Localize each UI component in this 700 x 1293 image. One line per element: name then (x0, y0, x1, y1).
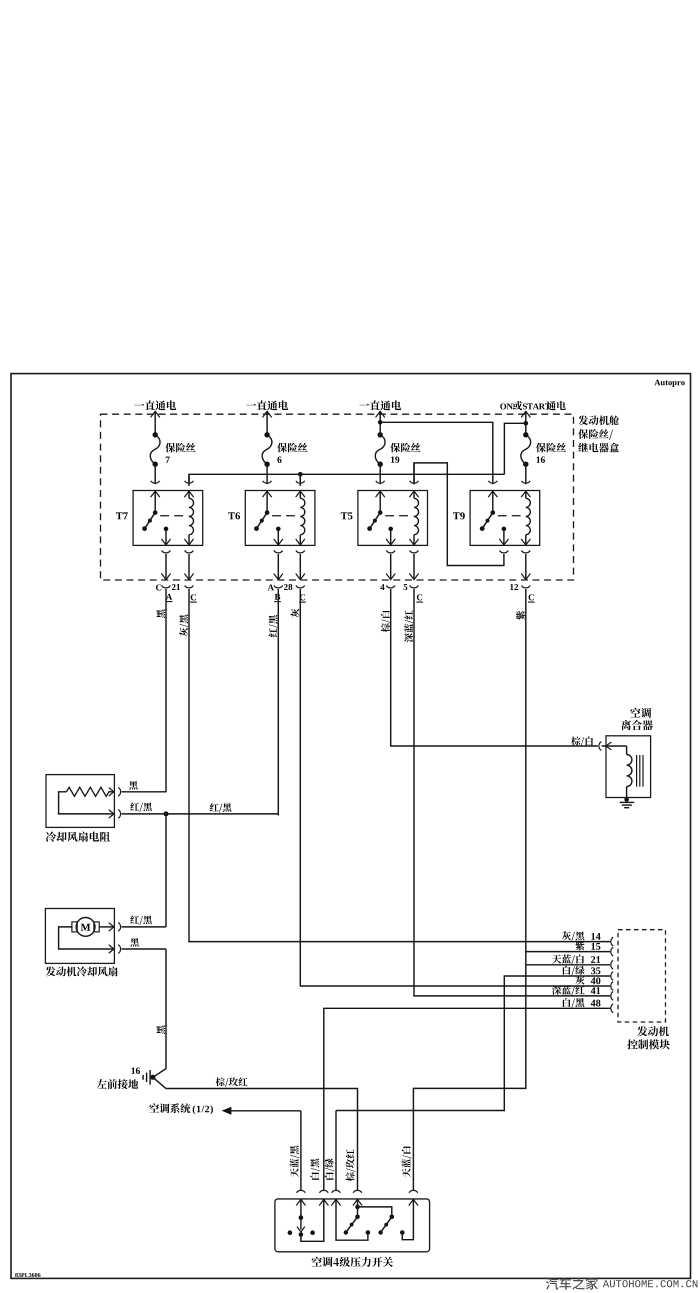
label-v 深蓝/红 (404, 610, 414, 642)
wire: ON/START junction to coil supply line (504, 423, 525, 474)
label 棕/白 (571, 736, 580, 745)
fuse 7 (154, 411, 156, 435)
label 12 (510, 584, 513, 590)
PS switch1 (300, 1199, 302, 1218)
label-v 黑 (156, 609, 165, 618)
wire + up arrow from feed (263, 411, 272, 417)
label-v 白/黑 (310, 1159, 320, 1180)
label 16 (132, 1068, 135, 1074)
label C (156, 584, 161, 590)
label C (300, 594, 305, 600)
label 保险丝 (277, 443, 287, 453)
label 4 (380, 584, 384, 590)
label T6 (228, 512, 235, 519)
wire: relay coil supply line T7/T6 (189, 474, 504, 486)
connector above T9 coil pin (521, 481, 530, 483)
arrow AC system (222, 1107, 232, 1115)
label-v 灰 (291, 609, 300, 618)
connector above T9 switch pin (488, 481, 497, 483)
label 一直通电 (246, 404, 256, 406)
label 保险丝 (390, 443, 400, 453)
label 白/绿 (563, 966, 571, 975)
label (1/2) (193, 1105, 196, 1114)
junction dot feed3 (379, 411, 381, 435)
clutch feed connector+arrow (599, 742, 601, 751)
label-v 天蓝/黑 (290, 1146, 300, 1178)
T9 below-box connectors (500, 551, 509, 553)
label 空调4级压力开关 (312, 1257, 322, 1267)
label 或 (513, 401, 522, 410)
PS E3 under-route (336, 1199, 368, 1240)
wire: T9 output to T5 coil (414, 463, 504, 566)
label AUTOHOME.COM.CN (603, 1280, 609, 1287)
T7 actuator dashed link (160, 515, 188, 517)
label 天蓝/白 (552, 955, 561, 964)
motor top output red/black (99, 926, 113, 928)
T9 coil (525, 491, 527, 499)
outer border frame (11, 374, 691, 1279)
T5 coil (413, 491, 415, 499)
fuse element (262, 435, 272, 464)
ECM dashed connector box (618, 930, 666, 1022)
label Autopro (654, 380, 660, 386)
fuse element (521, 435, 531, 464)
ECM pin 灰 40 (611, 982, 613, 991)
label-v 紫 (516, 611, 525, 620)
cooling fan resistor box (46, 775, 114, 828)
engine cooling fan box (45, 909, 114, 964)
wire: fuse6 to T6 switch (266, 464, 268, 484)
ECM pin 灰/黑 14 (611, 937, 613, 946)
label-v 黑 (156, 1025, 165, 1034)
ECM pin 深蓝/红 41 (611, 992, 613, 1001)
relay T6 (245, 491, 315, 546)
wire: T6-B red/black down to resistor junction line (277, 597, 279, 816)
label B (275, 594, 281, 600)
wire: ECM35 drop (336, 976, 610, 1111)
junction dot T6 coil feed (298, 472, 303, 477)
label 41 (591, 987, 596, 994)
label 一直通电 (359, 404, 369, 406)
wire: ECM48 white/black to PS E2 (324, 1008, 610, 1190)
T5 common output pin (388, 527, 393, 532)
label 14 (591, 933, 595, 940)
label 保险丝 (536, 443, 546, 453)
label 发动机舱 (578, 415, 588, 425)
label-v 棕/白 (381, 610, 391, 632)
relay T5 (358, 491, 428, 546)
wire + up arrow from feed (376, 411, 385, 417)
T7 switch contacts (154, 491, 156, 513)
label 40 (591, 977, 596, 984)
dashed box: engine compartment fuse/relay box (101, 414, 574, 580)
label 28 (284, 584, 288, 590)
T9 common output pin (502, 527, 507, 532)
T5 actuator dashed link (385, 515, 413, 517)
junction dot red/black node (164, 811, 169, 816)
connector above T5 switch pin (376, 481, 385, 483)
T6 switch contacts (266, 491, 268, 513)
label 灰/黑 (562, 931, 571, 940)
connector above T7 switch pin (151, 481, 160, 483)
label 控制模块 (627, 1039, 637, 1049)
ECM pin 白/黑 48 (611, 1004, 613, 1013)
label 空调 (630, 708, 640, 718)
PS switch2 (357, 1199, 359, 1217)
wire: drop to PS E3 (335, 1111, 337, 1191)
wire: T7-C gray/black down to ECM 14 (189, 597, 610, 942)
label A (166, 594, 172, 600)
fuse 16 (525, 411, 527, 435)
pressure switch box (275, 1199, 430, 1252)
label T9 (453, 512, 460, 519)
wire + up arrow from feed (151, 411, 160, 417)
motor circle M (76, 918, 95, 937)
label 16 (537, 457, 540, 463)
wire: fuse19 to T5 switch (379, 464, 381, 484)
T6 pin row: A 28, B C (274, 586, 283, 588)
label 35 (591, 967, 595, 974)
label 空调系统 (149, 1103, 159, 1112)
wire corner up to T7-A (165, 791, 167, 794)
connector above T6 switch pin (263, 481, 272, 483)
label T5 (341, 512, 348, 519)
label 48 (591, 1000, 596, 1007)
label 黑 (130, 938, 139, 947)
wire: T7-A black down to resistor line (165, 597, 167, 792)
T5 below-box connectors (386, 551, 395, 553)
label 发动机冷却风扇 (46, 967, 56, 977)
label START (523, 403, 527, 409)
wire: T9-12 purple down, branches to ECM 15/21, to PS E5 (413, 597, 525, 1190)
wire: T5-5 darkblue/red down to ECM 41 (414, 597, 610, 996)
label 保险丝/ (578, 429, 588, 439)
label 离合器 (621, 720, 631, 730)
T9 pin row: 12, C (521, 586, 530, 588)
label 灰 (575, 976, 584, 985)
label 棕/玫红 (216, 1077, 225, 1086)
T5 switch contacts (379, 491, 381, 513)
motor internal loop (59, 927, 109, 949)
label 红/黑 (210, 803, 219, 811)
T6 coil (299, 491, 301, 499)
label 继电器盒 (578, 443, 588, 452)
PS entry connectors (297, 1190, 306, 1192)
resistor top output black (109, 791, 113, 793)
T9 switch contacts (492, 491, 494, 513)
label 白/黑 (563, 998, 571, 1007)
AC clutch box (606, 736, 651, 798)
T6 below-box connectors (274, 551, 283, 553)
wire: junction down to motor feed (165, 814, 167, 927)
connector above T7 coil pin (185, 481, 194, 483)
label 黑 (129, 781, 138, 790)
fuse element (375, 435, 385, 464)
label 19 (391, 457, 394, 463)
label 汽车之家 (546, 1277, 558, 1289)
resistor internal loop (59, 792, 109, 814)
wire: fuse7 to T7 switch (154, 464, 156, 484)
label 冷却风扇电阻 (46, 832, 56, 842)
T7 common output pin (164, 527, 169, 532)
label 5 (404, 584, 408, 590)
wire: motor black down to ground (153, 949, 166, 1077)
label A (268, 584, 274, 590)
ECM pin 白/绿 35 (611, 972, 613, 981)
label 7 (166, 457, 170, 463)
wire: AC system line from ECM35 drop (231, 1110, 301, 1112)
label C (417, 594, 422, 600)
fuse element (150, 435, 160, 464)
label 83PL3606 (15, 1273, 18, 1277)
label 深蓝/红 (552, 986, 561, 995)
wire: feed3 junction to T9 switch (380, 422, 493, 484)
label 紫 (575, 941, 584, 950)
label-v 棕/玫红 (346, 1149, 356, 1181)
label 红/黑 (130, 915, 139, 923)
label 红/黑 (130, 802, 139, 810)
T9 actuator dashed link (498, 515, 526, 517)
label 6 (277, 457, 281, 463)
label 通电 (546, 401, 555, 410)
T6 actuator dashed link (272, 515, 300, 517)
wire: T6-C gray down to ECM 40 (300, 597, 610, 986)
clutch ground (624, 797, 629, 802)
ECM pin 紫 15 (611, 947, 613, 956)
label 21 (172, 584, 176, 590)
label T7 (116, 512, 123, 519)
motor bottom output black (109, 948, 113, 950)
T7 below-box connectors (162, 551, 171, 553)
relay T9 (470, 491, 540, 546)
wire: fuse16 to T9 coil (525, 464, 527, 484)
label C (529, 594, 534, 600)
label 发动机 (637, 1026, 647, 1036)
resistor zigzag (66, 787, 109, 796)
PS E5 under-route (402, 1199, 413, 1240)
label 保险丝 (165, 443, 175, 453)
label 一直通电 (134, 404, 144, 406)
connector above T6 coil pin (296, 481, 305, 483)
relay T7 (133, 491, 203, 546)
T5 pin row: 4 5, C (386, 586, 395, 588)
connector above T5 coil pin (410, 481, 419, 483)
clutch coil (626, 746, 628, 755)
T6 common output pin (276, 527, 281, 532)
label 15 (591, 943, 595, 950)
ground: left front ground (150, 1075, 155, 1080)
label-v 白/绿 (325, 1158, 335, 1179)
wire: T9 switch drop (413, 463, 415, 484)
label M (81, 924, 91, 931)
wire: ground to brown/rose wire (153, 1077, 358, 1190)
label 左前接地 (97, 1079, 107, 1088)
resistor bottom output red/black (109, 813, 113, 815)
fuse 6 (266, 411, 268, 435)
label C (191, 594, 196, 600)
label-v 红/黑 (269, 615, 279, 637)
wire: T5-4 brown/white down to AC clutch (391, 597, 598, 746)
wire: drop to PS E1 (300, 1111, 302, 1190)
label ON (500, 403, 506, 409)
label-v 天蓝/白 (402, 1146, 412, 1177)
ECM pin 天蓝/白 21 (611, 960, 613, 969)
label 21 (591, 956, 595, 963)
clutch plates (636, 755, 638, 787)
T7 coil (188, 491, 190, 499)
label-v 灰/黑 (179, 615, 189, 637)
T7 pin row: C 21, A C (162, 586, 171, 588)
